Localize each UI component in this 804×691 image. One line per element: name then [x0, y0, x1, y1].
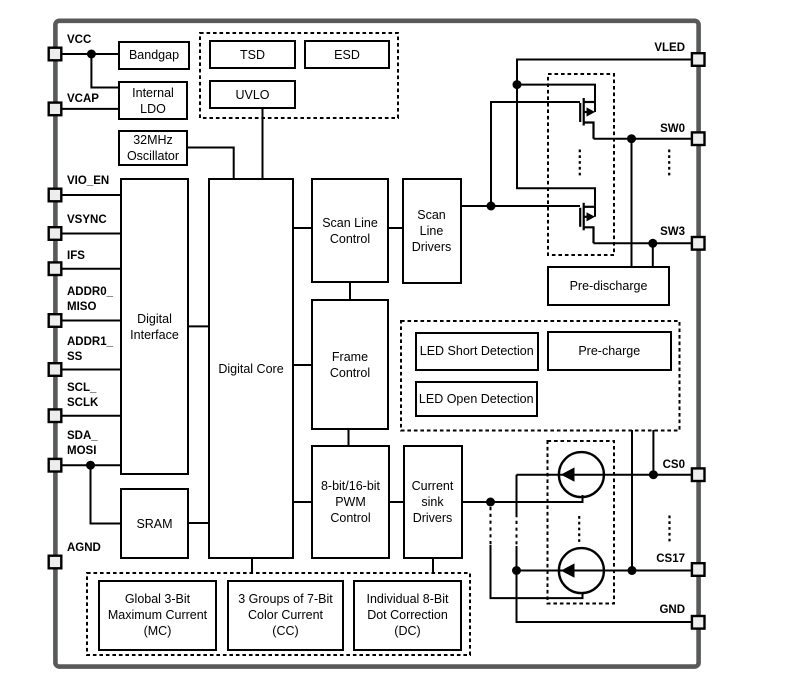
wire SRAM to Digital Core — [188, 522, 209, 524]
pin VLED — [692, 53, 705, 66]
block ESD — [304, 40, 390, 69]
block Scan Line Drivers — [402, 178, 462, 284]
label VIO_EN — [67, 174, 109, 189]
block LED Open Detection — [415, 381, 538, 417]
wire Current sink Drivers output — [462, 495, 583, 502]
wire Digital Core to Scan Line Control — [293, 227, 312, 229]
wire ADDR1_SS — [61, 369, 121, 371]
block Current sink Drivers — [403, 445, 463, 559]
block PWM Control — [311, 445, 390, 559]
block UVLO — [209, 80, 296, 109]
wire current sink gate dashed section — [490, 507, 492, 545]
label CS0 — [600, 458, 685, 473]
wire VCAP to Internal LDO — [61, 108, 119, 110]
transistor Q3 lower scan switch — [580, 203, 595, 244]
wire Scan Line Control to Scan Line Drivers — [388, 227, 403, 229]
block Individual 8-Bit Dot Correction DC — [353, 580, 462, 651]
wire SCL_SCLK — [61, 415, 121, 417]
node VCC — [87, 50, 96, 59]
ellipsis between switches — [579, 150, 581, 177]
dashed group LED detection — [401, 321, 680, 431]
pin SDA_MOSI — [49, 459, 62, 472]
label SDA_MOSI — [67, 429, 98, 459]
wire Digital Core to MC CC DC block — [251, 558, 253, 574]
dashed group current sources — [548, 441, 615, 604]
label IFS — [67, 249, 85, 264]
pin VCAP — [49, 103, 62, 116]
block SRAM — [120, 488, 189, 559]
wire VSYNC — [61, 233, 121, 235]
block Pre-discharge — [547, 266, 670, 306]
wire CS0 rail dashed section — [516, 514, 518, 546]
transistor Q3 arrow — [587, 212, 596, 221]
ellipsis between SW pins — [668, 150, 670, 177]
wire SDA_MOSI — [61, 464, 121, 466]
node current sink out — [486, 498, 495, 507]
pin VSYNC — [49, 227, 62, 240]
label CS17 — [600, 552, 685, 567]
dashed group TSD ESD UVLO — [200, 33, 398, 118]
wire VCC branch to Internal LDO — [91, 54, 119, 88]
current source CS17 arrow — [561, 563, 575, 577]
wire ADDR0_MISO — [61, 320, 121, 322]
wire Oscillator to Digital Core — [187, 148, 234, 180]
label VCC — [67, 33, 91, 48]
chip outer border — [55, 21, 698, 667]
block Internal LDO — [118, 81, 188, 120]
block Bandgap — [118, 41, 190, 71]
wire VLED node to upper switch drain — [517, 85, 595, 112]
wire Pre-charge to CS0 — [652, 430, 654, 475]
pin AGND — [49, 556, 62, 569]
pin GND — [692, 616, 705, 629]
block Digital Interface — [120, 178, 189, 475]
block 3 Groups of 7-Bit Color Current CC — [227, 580, 344, 651]
wire VIO_EN — [61, 194, 121, 196]
block TSD — [209, 40, 296, 69]
node VLED — [513, 80, 522, 89]
dashed group MC CC DC — [87, 573, 470, 655]
dashed group scan switches — [548, 74, 614, 255]
current source CS0 arrow — [561, 467, 575, 481]
wire CS17 rail to GND — [517, 546, 693, 622]
block LED Short Detection — [415, 332, 539, 372]
label ADDR0_MISO — [67, 285, 113, 315]
wire SW3 to Pre-discharge — [652, 243, 654, 267]
label SCL_SCLK — [67, 381, 98, 411]
pin CS0 — [692, 468, 705, 481]
block 32MHz Oscillator — [118, 130, 188, 166]
wire gate branch to upper switch — [491, 102, 580, 206]
pin VIO_EN — [49, 189, 62, 202]
current source CS17 — [559, 548, 604, 593]
node SDA — [86, 461, 95, 470]
block Global 3-Bit Maximum Current MC — [98, 580, 217, 651]
label VCAP — [67, 92, 99, 107]
label SW3 — [600, 225, 685, 240]
wire CS0 — [517, 474, 693, 476]
node CS17 rail — [512, 566, 521, 575]
node scan gate — [487, 202, 496, 211]
block Pre-charge — [547, 331, 672, 371]
ellipsis between CS pins — [668, 516, 670, 543]
label ADDR1_SS — [67, 335, 113, 365]
wire Digital Core to Frame Control — [293, 364, 312, 366]
wire Frame Control to PWM Control — [348, 429, 350, 446]
wire SW3 — [594, 242, 693, 244]
wire SW0 to Pre-discharge — [631, 139, 633, 267]
wire Scan Line Drivers to gates — [461, 205, 581, 207]
wire VLED — [517, 60, 692, 85]
wire VCC to Bandgap — [61, 53, 119, 55]
wire PWM Control to Current sink Drivers — [389, 501, 404, 503]
pin VCC — [49, 48, 62, 61]
wire IFS — [61, 268, 121, 270]
pin ADDR1_SS — [49, 363, 62, 376]
wire Digital Interface to Digital Core — [188, 325, 209, 327]
transistor Q0 arrow — [587, 107, 596, 116]
block Scan Line Control — [311, 178, 389, 283]
current source CS0 — [559, 452, 604, 497]
wire Scan Line Control to Frame Control — [349, 282, 351, 300]
ellipsis between current sources — [578, 516, 580, 545]
pin IFS — [49, 262, 62, 275]
pin ADDR0_MISO — [49, 314, 62, 327]
label SW0 — [600, 122, 685, 137]
pin SCL_SCLK — [49, 409, 62, 422]
transistor Q0 upper scan switch — [580, 98, 595, 139]
block Digital Core — [208, 178, 294, 559]
label VLED — [600, 41, 685, 56]
wire Pre-charge to CS17 — [631, 430, 633, 571]
label GND — [600, 603, 685, 618]
wire UVLO to Digital Core — [262, 107, 264, 179]
pin CS17 — [692, 563, 705, 576]
node SW3 — [648, 239, 657, 248]
label AGND — [67, 541, 101, 556]
wire Current sink Drivers to DC block — [432, 558, 434, 574]
pin SW0 — [692, 132, 705, 145]
wire CS0 rail down solid — [516, 475, 518, 514]
node CS0 — [649, 470, 658, 479]
label VSYNC — [67, 213, 107, 228]
wire SDA branch to SRAM — [91, 465, 122, 523]
wire SW0 — [594, 138, 693, 140]
block Frame Control — [311, 299, 389, 430]
node SW0 — [627, 134, 636, 143]
wire CS17 — [517, 570, 693, 572]
wire Digital Core to PWM Control — [293, 501, 312, 503]
pin SW3 — [692, 237, 705, 250]
wire VLED node to lower switch drain — [517, 85, 595, 217]
node CS17 precharge — [628, 566, 637, 575]
wire current sink gate to lower source — [491, 545, 583, 598]
